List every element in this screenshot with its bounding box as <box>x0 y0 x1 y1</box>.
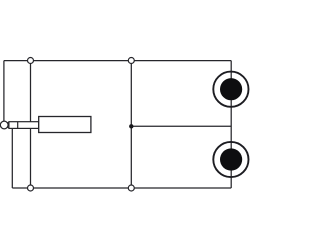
node terminal top-mid <box>128 58 134 64</box>
junction dot <box>129 124 133 128</box>
jack plug tip bulb <box>0 121 8 129</box>
node terminal bottom-mid <box>128 185 134 191</box>
wire ring contact down to bottom <box>11 126 13 188</box>
wire right vertical <box>230 61 232 188</box>
wire sleeve vertical <box>30 61 32 188</box>
RCA jack bottom outer ring <box>213 142 248 177</box>
node terminal top-left <box>28 58 34 64</box>
RCA jack top center pin <box>220 78 242 100</box>
node terminal bottom-left <box>28 185 34 191</box>
RCA jack top outer ring <box>213 72 248 107</box>
RCA jack bottom center pin <box>220 148 242 170</box>
wire middle vertical <box>130 61 132 188</box>
jack plug neck <box>4 123 10 128</box>
wire left vertical to plug tip <box>3 61 5 122</box>
jack plug barrel <box>39 117 91 133</box>
jack plug sleeve divider <box>17 122 19 129</box>
wire middle horizontal <box>131 125 231 127</box>
wire top horizontal (tip net) <box>4 60 231 62</box>
wire bottom horizontal (ring net) <box>12 187 231 189</box>
jack plug shaft <box>9 122 39 129</box>
